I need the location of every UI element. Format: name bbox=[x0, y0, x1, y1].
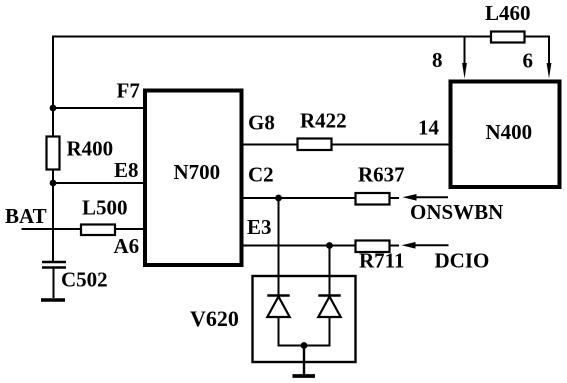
svg-text:N700: N700 bbox=[174, 160, 221, 184]
wire L500 to A6 pin wire bbox=[115, 228, 145, 230]
resistor R637 bbox=[356, 193, 390, 205]
wire E3 to R711 bbox=[241, 245, 356, 247]
wire R637 output stub bbox=[390, 197, 400, 199]
wire R711 output stub bbox=[390, 245, 400, 247]
diode V620b bbox=[318, 296, 340, 318]
svg-text:E3: E3 bbox=[247, 215, 272, 239]
wire E8 pin wire bbox=[53, 182, 145, 184]
svg-text:G8: G8 bbox=[248, 111, 275, 135]
inductor L460 bbox=[491, 32, 525, 43]
svg-text:E8: E8 bbox=[114, 158, 139, 182]
node junction dot E3 branch bbox=[326, 242, 333, 249]
wire R422 to N400 pin 14 bbox=[331, 144, 451, 146]
wire junction to L460 input bbox=[465, 36, 492, 38]
svg-text:L460: L460 bbox=[485, 1, 531, 25]
inductor L500 bbox=[81, 225, 115, 236]
wire pin 8 drop with arrow bbox=[462, 37, 467, 79]
resistor R400 bbox=[47, 137, 60, 170]
wire ONSWBN arrow bbox=[403, 194, 449, 201]
svg-text:A6: A6 bbox=[114, 234, 140, 258]
node junction dot diode common bbox=[301, 342, 308, 349]
svg-text:R711: R711 bbox=[359, 249, 405, 273]
wire below right diode bbox=[329, 317, 331, 347]
diode module V620 box bbox=[253, 276, 356, 362]
resistor R711 bbox=[356, 241, 390, 253]
node junction dot F7 bbox=[50, 105, 57, 112]
svg-text:14: 14 bbox=[418, 116, 440, 140]
node junction dot E8 bbox=[50, 180, 57, 187]
wire diode common connector bbox=[278, 345, 331, 347]
svg-text:DCIO: DCIO bbox=[435, 249, 490, 273]
wire C2 branch vertical to left diode bbox=[278, 198, 280, 295]
node junction dot C2 branch bbox=[275, 195, 282, 202]
svg-text:R400: R400 bbox=[67, 137, 114, 161]
capacitor C502 bbox=[41, 262, 66, 300]
wire left vertical bus bbox=[52, 36, 54, 263]
wire E3 branch vertical to right diode bbox=[329, 246, 331, 296]
svg-text:ONSWBN: ONSWBN bbox=[410, 200, 503, 224]
svg-text:R422: R422 bbox=[300, 109, 347, 133]
svg-text:8: 8 bbox=[432, 48, 443, 72]
wire top horizontal bus bbox=[53, 36, 465, 38]
diode V620a bbox=[267, 296, 289, 318]
wire C2 to R637 bbox=[241, 197, 356, 199]
svg-text:F7: F7 bbox=[117, 79, 140, 103]
svg-text:L500: L500 bbox=[82, 196, 128, 220]
svg-text:C2: C2 bbox=[248, 163, 274, 187]
wire F7 pin wire bbox=[53, 107, 145, 109]
svg-text:V620: V620 bbox=[190, 306, 239, 331]
wire BAT input wire bbox=[22, 228, 83, 230]
svg-text:N400: N400 bbox=[486, 120, 533, 144]
ground bbox=[293, 374, 316, 378]
IC N400 bbox=[451, 82, 560, 188]
wire G8 to R422 bbox=[241, 144, 298, 146]
wire L460 output to corner bbox=[525, 36, 550, 38]
wire DCIO arrow bbox=[402, 242, 449, 249]
wire below left diode bbox=[278, 317, 280, 347]
wire to ground bbox=[303, 346, 305, 375]
svg-text:R637: R637 bbox=[358, 163, 405, 187]
resistor R422 bbox=[298, 139, 332, 151]
svg-text:C502: C502 bbox=[61, 268, 108, 292]
svg-text:6: 6 bbox=[523, 49, 534, 73]
IC N700 bbox=[145, 91, 242, 266]
wire pin 6 drop with arrow bbox=[547, 36, 552, 79]
svg-text:BAT: BAT bbox=[5, 204, 47, 228]
